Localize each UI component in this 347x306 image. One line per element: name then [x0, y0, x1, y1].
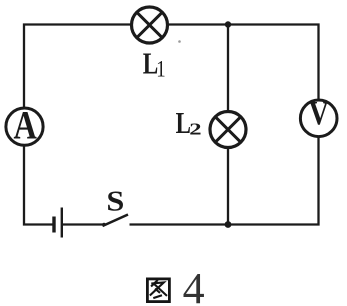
svg-text:2: 2 [189, 119, 201, 138]
svg-text:A: A [14, 103, 37, 147]
svg-text:V: V [309, 93, 330, 131]
svg-text:S: S [106, 185, 124, 216]
svg-text:4: 4 [183, 264, 205, 306]
svg-text:1: 1 [156, 55, 165, 82]
